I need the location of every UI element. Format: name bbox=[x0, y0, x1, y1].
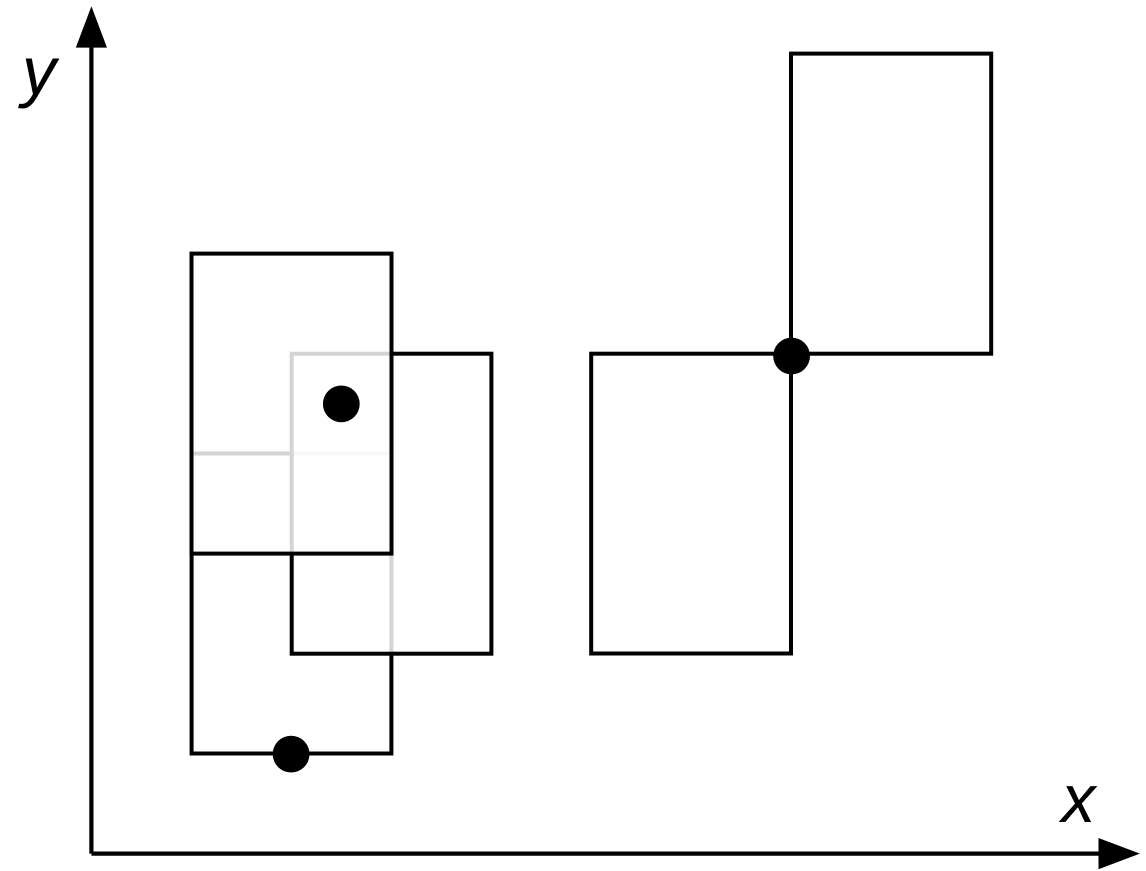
x-axis line bbox=[91, 851, 1105, 855]
rectangle E (upper-right of right cluster) bbox=[791, 54, 991, 354]
rectangle C (bottom-left of left cluster, drawn first / lowest) bbox=[192, 454, 392, 754]
svg-text:y: y bbox=[18, 34, 60, 110]
rectangle A (top-left of left cluster, topmost layer) bbox=[192, 254, 392, 554]
rectangle D (lower-left of right cluster) bbox=[591, 354, 791, 654]
point dot at shared corner of rectangles D and E bbox=[773, 338, 810, 375]
point dot on bottom edge of rectangle C bbox=[273, 736, 310, 773]
x-axis arrowhead bbox=[1099, 838, 1140, 869]
y-axis line bbox=[89, 40, 93, 854]
y-axis arrowhead bbox=[76, 6, 107, 47]
rectangle B (right of left cluster, middle layer) bbox=[292, 354, 492, 654]
svg-text:x: x bbox=[1058, 761, 1097, 837]
point dot inside rectangles A and B bbox=[323, 386, 360, 423]
